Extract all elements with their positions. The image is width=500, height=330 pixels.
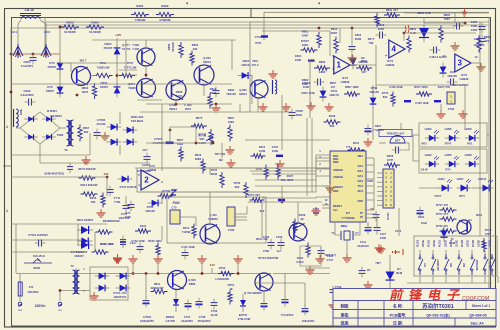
- svg-text:Vss: Vss: [333, 208, 338, 212]
- svg-text:R608: R608: [176, 90, 183, 94]
- wire fan 2: [252, 161, 322, 174]
- resistor R802h: [301, 48, 318, 52]
- wire d004 up: [116, 38, 118, 47]
- svg-text:LED4: LED4: [438, 177, 445, 181]
- wire ic pin l4: [322, 175, 330, 177]
- wire h140 ext: [245, 139, 250, 141]
- wire v210a: [209, 168, 211, 175]
- transformer T600: [67, 120, 70, 146]
- led arrow c1: [466, 179, 471, 183]
- resistor R00L: [94, 73, 113, 77]
- svg-text:?0?E: ?0?E: [255, 41, 262, 45]
- wire v307: [306, 118, 308, 196]
- switch DC: [445, 257, 447, 259]
- diode D2 1N4148: [442, 63, 444, 78]
- svg-text:C?80: C?80: [228, 228, 235, 232]
- svg-text:日 期:: 日 期:: [393, 321, 403, 326]
- svg-text:R103: R103: [416, 240, 420, 248]
- ground r602: [215, 104, 217, 108]
- op-amp U1 LM339 section 1: [334, 56, 350, 74]
- svg-text:1N400?2A: 1N400?2A: [114, 295, 127, 299]
- svg-text:R604: R604: [192, 43, 199, 47]
- choke core bars: [20, 13, 41, 15]
- svg-text:R?72: R?72: [382, 91, 389, 95]
- svg-text:10: 10: [443, 54, 446, 58]
- wire v135: [136, 168, 138, 192]
- diode D011: [77, 244, 93, 246]
- diode D2x: [352, 55, 354, 70]
- svg-text:5: 5: [138, 173, 140, 177]
- svg-text:LED9: LED9: [465, 127, 472, 131]
- transistor Q602: [166, 80, 186, 100]
- wire c80 s3: [235, 219, 247, 221]
- svg-text:LED5: LED5: [445, 153, 452, 157]
- fan section outline: [167, 197, 266, 243]
- wire tem up: [400, 123, 402, 129]
- svg-text:C?604: C?604: [143, 315, 152, 319]
- svg-text:R016: R016: [90, 196, 97, 200]
- LED10c: [479, 187, 494, 189]
- wire dk up: [389, 255, 391, 270]
- wire h252: [11, 251, 85, 253]
- svg-text:R101: R101: [438, 240, 442, 248]
- wire h168: [135, 167, 330, 169]
- resistor R014: [81, 192, 98, 196]
- svg-text:R0?7: R0?7: [368, 37, 375, 41]
- svg-text:C?5: C?5: [171, 206, 177, 210]
- wire h224: [11, 223, 107, 225]
- wire v16: [15, 224, 17, 273]
- wire ic pin l1: [322, 157, 330, 159]
- bridge diode 2: [42, 118, 56, 120]
- capacitor C107 flat: [276, 155, 283, 157]
- wire xtal gnd: [346, 240, 348, 255]
- svg-text:1-00Ω1/4W: 1-00Ω1/4W: [215, 277, 229, 281]
- svg-text:15E: 15E: [91, 200, 96, 204]
- svg-text:C?84: C?84: [448, 107, 455, 111]
- IC U10 main MCU: [330, 151, 366, 222]
- svg-text:R?10: R?10: [485, 228, 492, 232]
- resistor R016: [101, 193, 105, 208]
- svg-text:ED604: ED604: [166, 315, 175, 319]
- wire h84: [11, 83, 232, 85]
- wire h40 left: [92, 39, 126, 41]
- svg-text:R801: R801: [82, 86, 89, 90]
- svg-text:D?01: D?01: [371, 86, 378, 90]
- wire fan 5: [137, 186, 322, 192]
- wire cj2 up: [304, 283, 306, 306]
- resistor R651: [228, 290, 232, 305]
- svg-text:2: 2: [319, 162, 321, 166]
- svg-text:R80? 10KF: R80? 10KF: [345, 85, 359, 89]
- resistor R202: [440, 229, 457, 233]
- wire q603-q604: [145, 66, 147, 79]
- svg-text:C?: C?: [355, 231, 359, 235]
- svg-text:10E2: 10E2: [228, 120, 235, 124]
- wire led row3: [419, 187, 440, 189]
- svg-text:VR1: VR1: [199, 137, 205, 141]
- junction q003e: [76, 94, 79, 97]
- svg-text:R611: R611: [154, 282, 161, 286]
- junction rail 133: [132, 272, 135, 275]
- svg-text:C103: C103: [276, 235, 283, 239]
- resistor R801b: [92, 83, 96, 99]
- svg-text:JP: JP: [360, 215, 363, 219]
- resistor R703: [244, 182, 248, 198]
- svg-text:R811: R811: [410, 27, 417, 31]
- ground j1: [132, 255, 134, 259]
- svg-text:R803: R803: [319, 60, 326, 64]
- wire h85: [376, 84, 465, 86]
- wire h33: [404, 32, 476, 34]
- svg-text:AN/RA6: AN/RA6: [333, 175, 344, 179]
- svg-text:1/3 W: 1/3 W: [420, 168, 427, 172]
- junction: [45, 53, 48, 56]
- resistor R072: [391, 92, 395, 107]
- wire h127: [170, 126, 196, 128]
- capacitor C111: [365, 227, 372, 229]
- capacitor C7: [128, 204, 135, 206]
- wire h268b: [305, 267, 330, 269]
- svg-text:AC1: AC1: [11, 30, 17, 34]
- diode D601a: [123, 129, 138, 131]
- ground keypad left: [380, 245, 382, 249]
- svg-text:Gw: Gw: [18, 308, 23, 312]
- ground near C811: [351, 54, 353, 58]
- led arrow b1: [454, 156, 459, 160]
- resistor R012: [96, 230, 113, 234]
- diode D801 big: [423, 24, 425, 42]
- svg-text:R?47: R?47: [445, 142, 452, 146]
- capacitor C006: [94, 132, 101, 134]
- svg-text:C801 104E: C801 104E: [301, 91, 315, 95]
- wire h155: [11, 154, 90, 156]
- svg-text:1: 1: [319, 149, 321, 153]
- svg-text:R?2U: R?2U: [386, 212, 390, 219]
- svg-text:R607: R607: [83, 126, 90, 130]
- fusible resistor RFB1: [24, 262, 52, 264]
- wire h192b: [210, 191, 232, 193]
- wire v262b: [261, 202, 263, 238]
- svg-text:4MHz: 4MHz: [340, 224, 348, 228]
- svg-text:10A250V: 10A250V: [27, 290, 38, 294]
- resistor R810: [375, 13, 379, 27]
- wire gnd drop 158: [157, 264, 159, 274]
- svg-text:1u?: 1u?: [277, 249, 282, 253]
- svg-text:4E72: 4E72: [287, 178, 294, 182]
- switch WATER: [471, 257, 473, 259]
- connector CZ84: [447, 92, 455, 104]
- resistor R709: [158, 194, 173, 198]
- wire cj1 up: [284, 274, 286, 298]
- svg-text:R014 20K1/W: R014 20K1/W: [81, 183, 98, 187]
- svg-text:R?0? 4?7: R?0? 4?7: [436, 212, 449, 216]
- ground j2: [157, 255, 159, 259]
- bridge diode 4: [42, 136, 56, 138]
- junction g1: [281, 201, 284, 204]
- svg-text:QF-094-03: QF-094-03: [469, 314, 486, 318]
- title block vline 1: [357, 301, 359, 327]
- svg-text:104E: 104E: [471, 24, 477, 28]
- svg-text:FR207: FR207: [46, 89, 55, 93]
- wire right edge bus: [488, 17, 490, 288]
- diode bd2: [95, 287, 110, 289]
- wire h100 stub: [137, 99, 162, 101]
- svg-text:3: 3: [458, 59, 463, 68]
- svg-text:R?07: R?07: [127, 61, 134, 65]
- ground fan: [329, 184, 331, 188]
- svg-text:LED7: LED7: [457, 177, 464, 181]
- svg-text:?-202: ?-202: [132, 47, 140, 51]
- switch ADJUST: [432, 257, 434, 259]
- svg-text:VDD: VDD: [367, 179, 373, 183]
- resistor R604: [190, 51, 194, 66]
- transistor Q603: [137, 48, 155, 66]
- svg-text:10uF: 10uF: [421, 221, 428, 225]
- wire v107b: [106, 186, 108, 196]
- wire ac rail: [11, 53, 60, 55]
- LED6: [445, 137, 459, 139]
- svg-text:C101 104E: C101 104E: [181, 245, 195, 249]
- LED7c: [457, 187, 472, 189]
- wire v250 long: [249, 22, 251, 112]
- wire h290: [60, 290, 90, 292]
- capacitor C004: [30, 57, 37, 59]
- resistor R610: [201, 159, 205, 174]
- LED9: [465, 137, 479, 139]
- svg-text:R206: R206: [387, 154, 394, 158]
- svg-text:?415W: ?415W: [182, 230, 191, 234]
- wire plug2 up: [59, 291, 61, 302]
- svg-text:C811: C811: [355, 33, 362, 37]
- svg-text:LED2: LED2: [425, 153, 432, 157]
- capacitor C802: [450, 79, 452, 86]
- wire h283: [255, 282, 305, 284]
- svg-text:Sheet 1 of 1: Sheet 1 of 1: [472, 304, 491, 308]
- resistor R803: [314, 66, 330, 70]
- wire -12v drop: [211, 268, 213, 274]
- ground f4: [440, 110, 442, 114]
- svg-text:561/1W: 561/1W: [171, 42, 175, 52]
- wire fan 1: [250, 158, 322, 171]
- wire led box left: [412, 135, 414, 161]
- svg-text:FAN: FAN: [173, 201, 180, 205]
- resistor R001: [131, 12, 149, 16]
- capacitor C608: [196, 301, 203, 303]
- svg-text:??0E: ??0E: [114, 200, 121, 204]
- wire fan drop2: [161, 226, 163, 240]
- resistor R411: [192, 224, 196, 239]
- wire ic pin r4: [366, 185, 374, 187]
- title block vline 2: [383, 301, 385, 327]
- wire cz2 l6: [377, 200, 383, 202]
- junction q bank: [145, 74, 148, 77]
- wire ic right rail: [373, 158, 375, 210]
- wire c80 s1: [235, 213, 247, 215]
- arrester left: [13, 44, 23, 58]
- svg-text:FR207: FR207: [48, 65, 57, 69]
- wire h202: [250, 201, 322, 203]
- svg-text:100-47LK: 100-47LK: [33, 254, 45, 258]
- led box 2: [419, 149, 487, 173]
- svg-text:R104: R104: [449, 240, 453, 248]
- junction r00l: [116, 74, 119, 77]
- svg-text:1.6u?: 1.6u?: [129, 241, 136, 245]
- junction vr1: [212, 142, 215, 145]
- svg-text:12: 12: [325, 198, 328, 202]
- resistor R016b: [92, 250, 109, 254]
- junction rail 238: [237, 272, 240, 275]
- svg-text:C107: C107: [272, 145, 279, 149]
- svg-text:RA3: RA3: [358, 179, 364, 183]
- svg-text:Size: A4: Size: A4: [470, 322, 483, 326]
- wire v78: [77, 224, 79, 245]
- svg-text:制图:: 制图:: [341, 304, 350, 309]
- svg-text:R?51: R?51: [228, 283, 235, 287]
- capacitor C001: [38, 240, 40, 247]
- wire fan drop: [161, 192, 163, 204]
- wire choke left drop: [18, 20, 21, 49]
- resistor R611: [151, 289, 168, 293]
- wire d601 right drop: [251, 76, 253, 105]
- svg-text:D?01 1N4148: D?01 1N4148: [120, 185, 137, 189]
- capacitor c vdd: [373, 214, 380, 216]
- svg-text:10?P: 10?P: [387, 158, 394, 162]
- connector FAN: [170, 210, 180, 224]
- svg-text:T600: T600: [57, 133, 64, 137]
- capacitor C810: [379, 32, 381, 39]
- wire v282: [281, 95, 283, 150]
- red mark r811: [405, 25, 409, 33]
- wire ic pin l0: [322, 154, 330, 156]
- svg-text:FR107: FR107: [104, 46, 113, 50]
- wire top right run: [404, 12, 489, 14]
- ground j10: [367, 281, 369, 285]
- svg-text:CQQF.COM: CQQF.COM: [462, 296, 490, 302]
- svg-text:0.1uF4KV: 0.1uF4KV: [21, 64, 33, 68]
- wire ic pin l6: [322, 196, 330, 198]
- junction r812 top: [351, 27, 354, 30]
- ground h3: [117, 254, 119, 258]
- resistor R809: [344, 92, 360, 96]
- wire h112: [140, 111, 250, 113]
- wire opamp3 out: [471, 62, 481, 64]
- svg-text:C?601: C?601: [302, 81, 311, 85]
- diode D801b: [372, 94, 374, 109]
- svg-text:?W?: ?W?: [375, 261, 381, 265]
- svg-text:M?2: M?2: [421, 142, 427, 146]
- wire c111 up: [367, 222, 369, 226]
- wire h22 mid: [250, 21, 262, 23]
- svg-text:RB6: RB6: [333, 160, 339, 164]
- svg-text:RESET: RESET: [333, 204, 342, 208]
- svg-text:2E3: 2E3: [330, 124, 335, 128]
- resistor R102: [156, 243, 160, 258]
- svg-text:LM339: LM339: [341, 80, 350, 84]
- svg-text:61.5K2W: 61.5K2W: [64, 30, 76, 34]
- diode D701x: [322, 87, 324, 102]
- wire cz2 l1: [377, 177, 383, 179]
- svg-text:10KF: 10KF: [302, 43, 309, 47]
- svg-text:C481: C481: [471, 20, 478, 24]
- wire key bottom2: [445, 276, 447, 283]
- led arrow c2: [488, 179, 493, 183]
- svg-text:1N41?8: 1N41?8: [329, 93, 339, 97]
- resistor R109b: [293, 219, 297, 234]
- svg-text:M?L: M?L: [467, 142, 473, 146]
- svg-text:1: 1: [6, 209, 8, 213]
- wire h143: [146, 142, 213, 144]
- wire buz l: [379, 142, 386, 144]
- title block line h2: [333, 309, 496, 311]
- resistor R807: [439, 26, 443, 43]
- diode D005: [59, 83, 61, 98]
- wire fan 4: [255, 176, 322, 186]
- svg-text:13: 13: [475, 55, 478, 59]
- junction ac left: [10, 53, 13, 56]
- svg-text:10E: 10E: [193, 47, 198, 51]
- capacitor Cj2: [302, 308, 309, 310]
- svg-text:220E: 220E: [421, 240, 425, 247]
- svg-text:R811 ?E?: R811 ?E?: [386, 8, 398, 12]
- wire cz84 down: [440, 104, 442, 114]
- ground c107: [279, 160, 281, 164]
- svg-text:2E32: 2E32: [211, 172, 218, 176]
- capacitor C002: [28, 99, 30, 106]
- junction opamp4: [403, 32, 406, 35]
- arrester right: [41, 44, 51, 58]
- svg-text:LED6: LED6: [445, 127, 452, 131]
- svg-text:?E6: ?E6: [281, 178, 286, 182]
- resistor R812: [334, 37, 338, 54]
- capacitor C105b flat: [434, 100, 441, 102]
- wire ic pin l7: [322, 204, 330, 206]
- diode bd1: [95, 275, 110, 277]
- svg-text:1N4148: 1N4148: [226, 92, 236, 96]
- wire key2 top: [445, 250, 447, 254]
- bridge2 box: [90, 267, 128, 300]
- wire h163: [40, 162, 150, 164]
- svg-text:R111: R111: [353, 141, 360, 145]
- wire gnd fan stub: [322, 185, 330, 187]
- svg-text:2E: 2E: [300, 217, 303, 221]
- wire d601 to drop: [249, 75, 252, 77]
- resistor R002: [156, 12, 174, 16]
- svg-text:C?00?: C?00?: [154, 137, 163, 141]
- svg-text:-: -: [385, 41, 387, 45]
- transistor Q201: [289, 223, 307, 241]
- svg-text:103E: 103E: [454, 240, 458, 247]
- wire gnd drop 238: [237, 264, 239, 274]
- svg-text:301K: 301K: [378, 27, 384, 31]
- capacitor C109: [330, 289, 337, 291]
- svg-text:R?: R?: [367, 268, 371, 272]
- resistor R5x: [250, 198, 265, 202]
- wire ic pin l8: [322, 207, 330, 209]
- svg-text:C?7: C?7: [125, 211, 131, 215]
- svg-text:+?: +?: [247, 200, 251, 204]
- diode D705: [148, 202, 163, 204]
- wire v282b: [281, 186, 283, 202]
- svg-text:+12V: +12V: [115, 33, 122, 37]
- red earth mark top right: [462, 8, 467, 16]
- transistor Q302: [255, 273, 273, 291]
- svg-text:6K42: 6K42: [210, 91, 217, 95]
- svg-text:LED3: LED3: [425, 127, 432, 131]
- svg-text:C?07: C?07: [184, 315, 191, 319]
- svg-text:R003: R003: [66, 21, 74, 25]
- wire h31: [262, 30, 330, 32]
